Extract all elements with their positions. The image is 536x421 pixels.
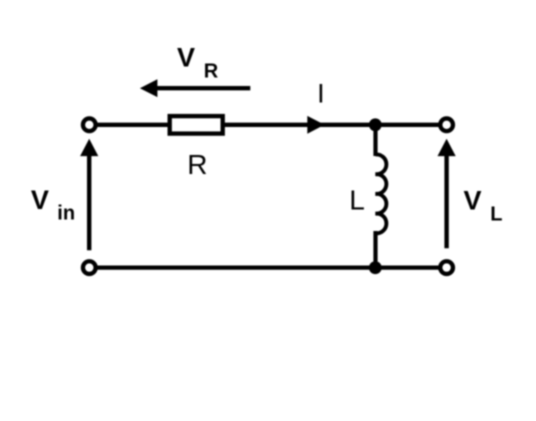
junction dot top (node B) [369,118,382,131]
inductor L coil [376,154,387,233]
svg-text:V: V [31,185,49,215]
wire top (node A to node B) [96,123,440,127]
inductor L bottom stub wire [373,231,377,268]
current I arrowhead on top wire [307,116,324,134]
terminal top-right (output +) [440,118,453,131]
svg-text:R: R [187,149,207,180]
terminal top-left (input +) [83,118,96,131]
svg-text:R: R [204,61,219,83]
resistor R [170,116,223,134]
V_R arrowhead (points left) [140,79,158,97]
V_L arrow shaft [444,154,448,248]
wire bottom (return) [96,265,440,269]
svg-text:L: L [490,203,502,225]
terminal bottom-right (output -) [440,261,453,274]
terminal bottom-left (input -) [83,261,96,274]
junction dot bottom [369,261,382,274]
V_L arrowhead (points up) [438,139,456,156]
V_in arrow shaft [87,154,91,250]
svg-text:I: I [317,79,325,109]
V_in arrowhead (points up) [80,139,98,156]
svg-text:in: in [57,203,75,225]
V_R arrow shaft [156,86,250,90]
svg-text:L: L [349,185,365,216]
svg-text:V: V [464,185,482,215]
inductor L top stub wire [373,125,377,156]
svg-text:V: V [177,43,195,73]
